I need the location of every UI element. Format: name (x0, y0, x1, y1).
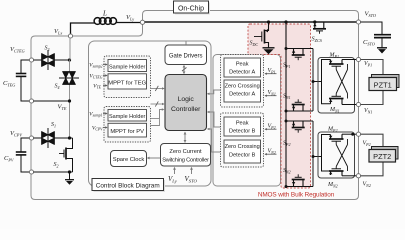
pin node bottom row (29, 170, 33, 174)
arrow ZCS to Spare Clock (147, 157, 161, 160)
node VCTEG (10, 46, 34, 62)
svg-text:S3: S3 (45, 46, 50, 52)
svg-text:Zero Crossing: Zero Crossing (225, 144, 260, 150)
svg-text:Control Block Diagram: Control Block Diagram (96, 182, 160, 189)
input label Vsamp1 (89, 112, 107, 118)
node VSTO (356, 11, 375, 25)
svg-text:Sample Holder: Sample Holder (109, 64, 146, 70)
Control Block Diagram label box (92, 179, 165, 193)
svg-text:On-Chip: On-Chip (178, 6, 204, 13)
node VLy (126, 14, 145, 24)
Spare Clock box (111, 151, 147, 167)
gate bus stage2 (313, 121, 322, 187)
transistor MN1 (329, 94, 357, 105)
VLy VSTO input arrows (168, 167, 198, 184)
svg-text:Peak: Peak (236, 62, 249, 68)
detector group B dashed box (221, 113, 264, 167)
output stage 1 box (318, 58, 355, 114)
capacitor CPV (4, 138, 32, 172)
svg-text:Detector A: Detector A (229, 70, 255, 76)
PZT2 box (369, 147, 398, 163)
input label Vsamp2 (89, 63, 107, 69)
NMOS bulk-regulation red region (248, 24, 311, 188)
transistor MP1 (322, 60, 357, 104)
control block diagram inner box (89, 41, 212, 186)
transistor MN2 (329, 167, 357, 176)
svg-text:SP1: SP1 (283, 63, 290, 69)
label VN1 gate signal (264, 90, 276, 97)
svg-text:VP1: VP1 (364, 61, 372, 67)
detector container box (213, 55, 281, 187)
cross coupling stage1 (336, 64, 347, 99)
svg-text:PZT1: PZT1 (374, 81, 392, 90)
wire VTE row (34, 100, 70, 102)
svg-text:VP2: VP2 (363, 141, 371, 147)
svg-text:MP2: MP2 (327, 127, 337, 133)
svg-text:MP1: MP1 (329, 53, 339, 59)
svg-text:Logic: Logic (178, 96, 195, 103)
svg-text:NMOS with Bulk Regulation: NMOS with Bulk Regulation (258, 192, 335, 199)
input label VTE (93, 84, 107, 90)
node VN1 (356, 102, 372, 114)
node VLx (54, 28, 73, 38)
Peak Detector A box (224, 58, 261, 77)
svg-text:Switching Controller: Switching Controller (162, 157, 209, 163)
detector group A dashed box (221, 55, 264, 108)
wire mid to LC with bus slash (151, 101, 165, 106)
left inner rail x=69.5 (69, 38, 71, 61)
node VN2 (356, 174, 370, 188)
svg-text:Controller: Controller (171, 106, 201, 113)
svg-text:PZT2: PZT2 (373, 152, 391, 161)
MPPT for TEG box (108, 74, 147, 89)
node VP1 (356, 57, 372, 67)
svg-text:Peak: Peak (236, 121, 249, 127)
Logic Controller box (165, 75, 207, 131)
svg-text:Detector B: Detector B (229, 129, 256, 135)
svg-text:Detector A: Detector A (229, 92, 255, 98)
svg-text:S1: S1 (51, 122, 56, 128)
ground wire row (34, 171, 73, 173)
Gate Drivers box (165, 45, 207, 65)
arrow LC-ZCS (184, 132, 187, 143)
capacitor CSTO (361, 22, 392, 48)
svg-text:SN1: SN1 (283, 94, 291, 100)
label VP2 gate signal (264, 124, 276, 131)
TEG sample group dashed box (104, 56, 151, 98)
wire S1 row (34, 137, 42, 139)
transistor SN2 (286, 174, 313, 186)
Zero Crossing Detector B box (224, 140, 261, 163)
svg-text:L: L (102, 10, 107, 18)
wire group1 to LC with bus slash (151, 86, 165, 91)
wire group2 to LC (151, 110, 164, 126)
svg-text:Detector B: Detector B (229, 153, 256, 159)
svg-text:SN2: SN2 (283, 168, 291, 174)
top rail wire VLy to VSTO (143, 21, 359, 23)
Sample Holder TEG box (108, 60, 147, 72)
capacitor CTEG (3, 60, 32, 101)
transistor SP1 (286, 49, 313, 61)
Zero Current Switching Controller box (161, 144, 211, 167)
PZT2 wires (361, 134, 384, 176)
svg-text:MPPT for TEG: MPPT for TEG (108, 81, 146, 87)
input label VCTEG2 (89, 74, 107, 80)
svg-text:Sample Holder: Sample Holder (109, 114, 146, 120)
output stage 2 box (318, 132, 355, 178)
gate bus stage1 (313, 49, 322, 112)
wire S3 row (34, 59, 42, 61)
svg-text:Zero Current: Zero Current (169, 149, 202, 155)
junction dot S1 (68, 136, 71, 139)
On-Chip box (174, 1, 211, 15)
switch S4 transmission gate (59, 72, 79, 85)
label VN2 gate signal (264, 149, 276, 156)
PZT1 box (369, 75, 399, 91)
transistor S2 (59, 138, 73, 172)
VSTO feed line (285, 22, 287, 187)
ground CSTO (377, 48, 387, 54)
label VP1 gate signal (264, 68, 276, 75)
transistor SP2 (286, 121, 313, 133)
node VCPV (10, 130, 34, 140)
svg-text:S2: S2 (54, 162, 59, 168)
transistor SZCS (313, 22, 326, 34)
switch S3 transmission gate (42, 50, 55, 70)
node VP2 (356, 132, 370, 147)
ground symbol left (65, 172, 74, 185)
svg-text:S4: S4 (55, 84, 60, 90)
arrow GD-LC (182, 65, 187, 74)
wires detectors to LC (208, 90, 221, 152)
svg-text:MN1: MN1 (329, 107, 340, 113)
ground SDC (263, 48, 275, 54)
svg-text:MPPT for PV: MPPT for PV (110, 129, 144, 135)
svg-text:VN1: VN1 (364, 108, 372, 114)
Sample Holder PV box (108, 110, 147, 122)
svg-text:MN2: MN2 (327, 182, 338, 188)
switch S1 transmission gate (42, 128, 55, 148)
svg-text:Spare Clock: Spare Clock (113, 157, 145, 163)
chip boundary outer box (31, 11, 359, 200)
svg-text:SDC: SDC (250, 41, 259, 47)
junction dot S3 (68, 58, 71, 61)
svg-text:SP2: SP2 (283, 141, 290, 147)
cross coupling stage2 (336, 139, 347, 171)
transistor SDC (254, 22, 269, 48)
svg-text:Gate Drivers: Gate Drivers (169, 54, 203, 60)
svg-text:VN2: VN2 (363, 182, 371, 188)
svg-text:Zero Crossing: Zero Crossing (225, 84, 260, 90)
arrow GD top (185, 42, 187, 46)
Peak Detector B box (224, 117, 261, 136)
Zero Crossing Detector A box (224, 80, 261, 102)
junction dot VTE (68, 99, 71, 102)
PZT1 wires (361, 60, 384, 105)
PV sample group dashed box (104, 107, 151, 143)
transistor MP2 (322, 134, 357, 171)
transistor SN1 (286, 99, 313, 111)
pin node row2 (29, 99, 33, 103)
input label VCPV (92, 126, 108, 132)
inductor L (71, 18, 143, 34)
MPPT for PV box (108, 123, 147, 137)
